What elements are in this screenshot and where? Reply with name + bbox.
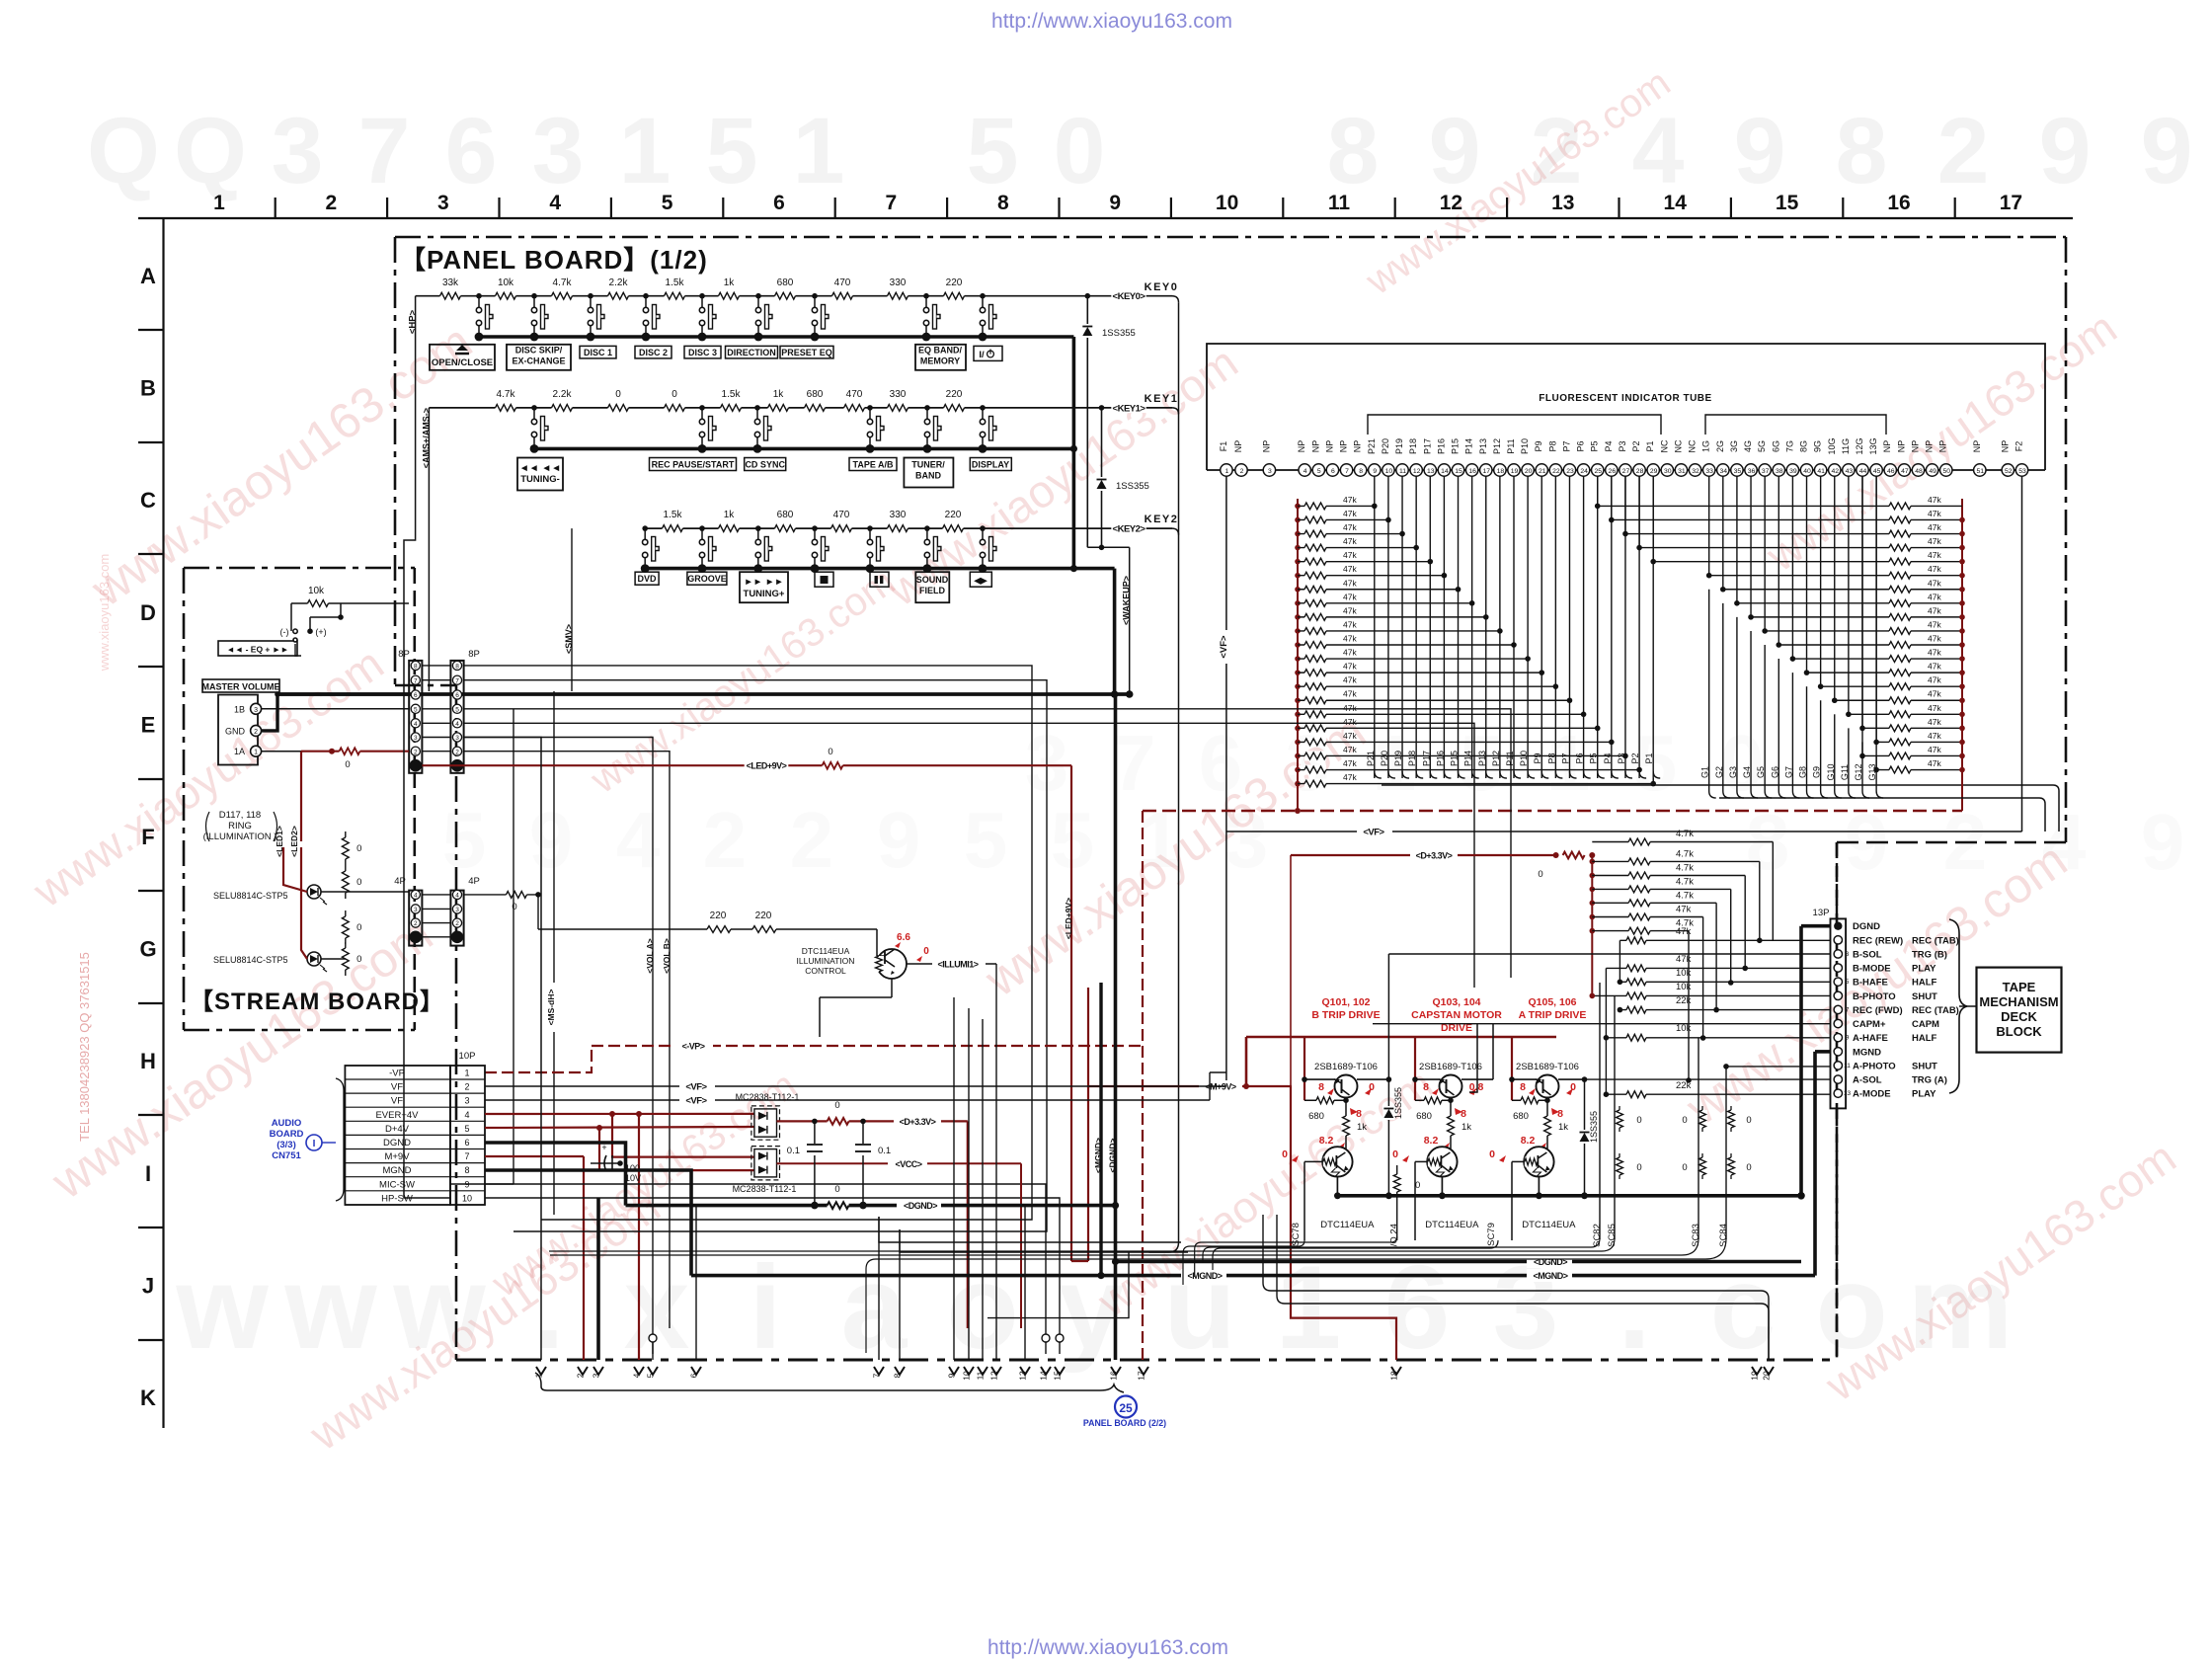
thick DGND horizontal lower: [1116, 1260, 1541, 1264]
bottom pin 9: [949, 1367, 959, 1375]
connector 8P right: [450, 661, 463, 773]
fluorescent indicator tube box: [1207, 344, 2045, 470]
svg-text:3: 3: [455, 907, 459, 913]
transistor DTC114EUA illumination control: [877, 949, 907, 979]
svg-text:TRG (A): TRG (A): [1912, 1075, 1947, 1086]
svg-text:2: 2: [455, 749, 459, 755]
svg-text:15: 15: [1455, 468, 1462, 475]
svg-text:G6: G6: [1770, 766, 1779, 778]
resistor 1k Q103: [1450, 1100, 1452, 1148]
wire emitter NPN Q106: [1538, 1177, 1540, 1196]
svg-text:0: 0: [1415, 1180, 1420, 1191]
wire P pin drop: [1611, 742, 1613, 778]
svg-text:47k: 47k: [1928, 564, 1941, 574]
svg-text:A-PHOTO: A-PHOTO: [1853, 1061, 1896, 1071]
svg-text:22k: 22k: [1676, 1080, 1692, 1091]
wire eq switch to connector: [295, 644, 301, 656]
svg-text:3: 3: [532, 99, 585, 203]
fl pin 40 8G: [1800, 464, 1812, 476]
svg-text:P16: P16: [1436, 438, 1446, 454]
svg-text:5: 5: [646, 1373, 656, 1378]
svg-text:0: 0: [1636, 1115, 1641, 1126]
svg-text:25: 25: [1119, 1401, 1133, 1415]
svg-text:NC: NC: [1688, 439, 1698, 452]
svg-text:P21: P21: [1367, 438, 1377, 454]
zero ohm resistor grid: [1619, 1106, 1620, 1132]
wire P pin drop: [1638, 770, 1640, 778]
svg-text:27: 27: [1622, 468, 1630, 475]
resistor 1.5k key row1: [721, 403, 742, 413]
fl pin 23 P7: [1563, 464, 1575, 476]
wire collector Q105: [1558, 1078, 1585, 1080]
svg-text:P3: P3: [1617, 752, 1626, 763]
svg-text:33k: 33k: [442, 277, 459, 288]
svg-text:<MS-dH>: <MS-dH>: [546, 990, 556, 1026]
svg-text:3G: 3G: [1729, 440, 1739, 452]
illumination line with 220 resistors: [538, 928, 877, 930]
svg-text:►► ►►: ►► ►►: [744, 577, 783, 588]
svg-text:47k: 47k: [1928, 675, 1941, 685]
svg-text:3: 3: [414, 735, 418, 742]
svg-text:47k: 47k: [1343, 509, 1357, 518]
resistor 680 Q101: [1304, 1099, 1346, 1101]
svg-text:G3: G3: [1728, 766, 1738, 778]
border ruler line: [138, 217, 2073, 219]
svg-text:38: 38: [1776, 468, 1783, 475]
svg-text:1SS355: 1SS355: [1116, 481, 1149, 492]
resistor 47k right bank row 10: [1881, 630, 1962, 632]
svg-text:6.6: 6.6: [897, 932, 910, 943]
key row0 label DISC 1: [580, 346, 616, 358]
resistor 4.7k ladder: [1590, 887, 1596, 893]
G bus horizontal: [1719, 797, 2039, 799]
svg-text:12: 12: [1440, 192, 1462, 214]
svg-text:FIELD: FIELD: [919, 586, 945, 595]
svg-text:37: 37: [1762, 468, 1770, 475]
resistor 1k key row1: [768, 403, 789, 413]
resistor 47k left bank row 6: [1295, 573, 1301, 579]
key switch row2: [980, 525, 986, 531]
key switch row0: [476, 293, 482, 299]
svg-text:A-SOL: A-SOL: [1853, 1075, 1882, 1086]
svg-text:220: 220: [945, 510, 962, 520]
svg-text:KEY2: KEY2: [1145, 514, 1179, 525]
svg-text:22: 22: [1552, 468, 1560, 475]
svg-text:DISC 2: DISC 2: [639, 348, 668, 357]
wire VF lines from 10P: [485, 1085, 1226, 1087]
svg-text:EVER+4V: EVER+4V: [375, 1110, 419, 1121]
diode pack MC2838-T112-1 upper: [754, 1109, 777, 1137]
master volume pot box: [218, 695, 258, 765]
svg-text:NP: NP: [1882, 440, 1892, 453]
svg-text:47k: 47k: [1343, 662, 1357, 672]
diode 1SS355 between Q101 Q103: [1387, 954, 1389, 1196]
resistor 47k left bank row 20: [1295, 767, 1301, 773]
svg-text:13: 13: [1844, 1090, 1852, 1097]
svg-text:BAND: BAND: [915, 471, 941, 481]
wire collector Q103: [1461, 1078, 1493, 1080]
svg-text:2: 2: [464, 1082, 469, 1092]
resistor 220 key row1: [944, 403, 965, 413]
resistor 47k right bank row 8: [1881, 602, 1962, 604]
svg-text:47k: 47k: [1928, 717, 1941, 727]
resistor 220 key row2: [943, 523, 964, 533]
svg-text:DTC114EUA: DTC114EUA: [1522, 1220, 1576, 1230]
resistor 47k left bank row 13: [1295, 670, 1301, 675]
svg-text:9: 9: [2141, 798, 2185, 886]
wire fl pin 9 vertical: [1374, 476, 1376, 506]
svg-text:G12: G12: [1854, 763, 1863, 780]
key row0 label EQ BAND/MEMORY: [915, 345, 966, 370]
key switch row1: [699, 405, 705, 411]
red wire M+9V stub: [485, 1155, 584, 1157]
svg-text:0: 0: [1682, 1115, 1687, 1126]
key row1 bottom bus (thick): [534, 447, 1073, 451]
svg-text:5: 5: [1317, 468, 1321, 475]
svg-text:51: 51: [1977, 468, 1985, 475]
audio board circled I: [306, 1135, 322, 1150]
13P pin 9 A-HAFE: [1834, 1033, 1842, 1041]
svg-text:P20: P20: [1380, 751, 1389, 766]
svg-text:<SMV>: <SMV>: [564, 624, 574, 654]
connector 4P right: [450, 891, 463, 946]
svg-text:11: 11: [1399, 468, 1406, 475]
svg-text:P10: P10: [1520, 438, 1530, 454]
svg-text:2SB1689-T106: 2SB1689-T106: [1516, 1062, 1579, 1072]
svg-text:I: I: [145, 1161, 151, 1186]
resistor 47k left bank row 14: [1295, 683, 1301, 689]
svg-text:29: 29: [1650, 468, 1658, 475]
wire DGND from 10P: [485, 1143, 626, 1206]
key switch row2: [924, 525, 930, 531]
key row0 bottom bus (thick): [479, 335, 1073, 339]
svg-text:0: 0: [834, 1100, 839, 1111]
svg-text:TEL 13804238923 QQ 37631515: TEL 13804238923 QQ 37631515: [77, 952, 92, 1142]
resistor 47k right bank row 19: [1881, 754, 1962, 756]
svg-text:47k: 47k: [1343, 772, 1357, 782]
svg-text:2: 2: [414, 749, 418, 755]
svg-text:47k: 47k: [1928, 758, 1941, 768]
svg-text:6: 6: [773, 192, 785, 214]
svg-text:47k: 47k: [1928, 689, 1941, 699]
red wire to lower diode pack: [612, 1114, 754, 1157]
svg-text:REC (TAB): REC (TAB): [1912, 1005, 1959, 1016]
bottom pin 20: [1764, 1367, 1774, 1375]
svg-text:32: 32: [1692, 468, 1699, 475]
wire illumination emitter: [891, 979, 893, 997]
svg-text:15: 15: [1053, 1371, 1063, 1381]
wire VF horizontal: [1226, 831, 2022, 832]
svg-text:P21: P21: [1366, 751, 1376, 766]
10P pin 6 DGND: [345, 1148, 485, 1150]
fl pin 47 NP: [1898, 464, 1910, 476]
svg-text:13: 13: [1551, 192, 1574, 214]
net tag KEY0: [1111, 290, 1145, 300]
svg-text:34: 34: [1720, 468, 1728, 475]
svg-text:10k: 10k: [1676, 968, 1692, 979]
wire P pin drop: [1443, 576, 1445, 778]
bottom pin 13: [1020, 1367, 1030, 1375]
fl pin 38 6G: [1773, 464, 1784, 476]
vertical wires from key matrix left side: [404, 296, 450, 1198]
svg-text:9: 9: [1734, 99, 1786, 203]
master volume label: [202, 679, 279, 692]
resistor 47k right bank row 20: [1881, 769, 1962, 771]
panel board dash-dot outline: [395, 236, 2066, 239]
fl pin 44 12G: [1856, 464, 1868, 476]
svg-text:2: 2: [576, 1373, 586, 1378]
key switch row0: [643, 293, 649, 299]
svg-text:47k: 47k: [1343, 522, 1357, 532]
bottom pin 14: [1041, 1367, 1051, 1375]
resistor 47k right bank row 12: [1881, 658, 1962, 660]
svg-text:6G: 6G: [1771, 440, 1780, 452]
svg-text:3: 3: [1268, 468, 1272, 475]
bottom pin 3: [593, 1367, 603, 1375]
thick wire to bottom pin16: [1114, 1262, 1118, 1361]
svg-text:BLOCK: BLOCK: [1996, 1024, 2042, 1039]
P bottom labels: [1375, 771, 1382, 778]
svg-text:33: 33: [1705, 468, 1713, 475]
svg-text:3: 3: [254, 707, 258, 714]
svg-text:0: 0: [1392, 1148, 1398, 1160]
svg-text:12G: 12G: [1855, 437, 1864, 454]
svg-text:2SB1689-T106: 2SB1689-T106: [1419, 1062, 1482, 1072]
svg-text:<DGND>: <DGND>: [904, 1201, 937, 1211]
key0 bus entry curve: [1172, 296, 1179, 303]
svg-text:4.7k: 4.7k: [1676, 890, 1694, 901]
svg-text:(-): (-): [280, 627, 289, 637]
wire fl pin 38 to right bank row 11: [1777, 476, 1779, 645]
resistor 0 right of 4P: [464, 894, 538, 896]
vertical label SC83: [1698, 1038, 1699, 1239]
svg-text:30: 30: [1664, 468, 1672, 475]
svg-text:http://www.xiaoyu163.com: http://www.xiaoyu163.com: [991, 10, 1232, 33]
svg-text:47k: 47k: [1928, 605, 1941, 615]
resistor 47k right bank row 16: [1881, 713, 1962, 715]
10P pin 4 EVER+4V: [345, 1120, 485, 1122]
svg-text:7: 7: [1112, 719, 1156, 807]
svg-text:1k: 1k: [773, 389, 785, 400]
svg-text:GROOVE: GROOVE: [687, 574, 727, 584]
resistor 47k left bank row 12: [1295, 656, 1301, 662]
resistor 2.2k key row1: [552, 403, 573, 413]
13P feed row CAPM+: [1373, 1023, 1831, 1025]
svg-text:TRG (B): TRG (B): [1912, 949, 1947, 960]
13P pin 13 A-MODE: [1834, 1089, 1842, 1097]
wire emitter Q105: [1509, 1076, 1515, 1082]
red wire D+4V: [485, 1127, 754, 1128]
key row0 label DISC 3: [684, 346, 721, 358]
resistor 0 key row1: [665, 403, 685, 413]
svg-text:7: 7: [414, 677, 418, 684]
svg-text:<MGND>: <MGND>: [1533, 1271, 1567, 1281]
key switch row1: [754, 405, 760, 411]
svg-text:8: 8: [1423, 1081, 1429, 1093]
key row2 label TUNING+: [740, 572, 788, 602]
vertical label SC84: [1725, 1067, 1727, 1239]
svg-text:NP: NP: [1896, 440, 1906, 453]
net tag VOL B vertical: [669, 928, 671, 983]
svg-text:x: x: [624, 1241, 690, 1374]
svg-text:5: 5: [706, 99, 758, 203]
wire emitter Q103: [1412, 1076, 1418, 1082]
net tag WAKEUP vertical: [1087, 546, 1129, 548]
svg-text:8: 8: [464, 1165, 469, 1175]
wire P pin drop: [1583, 714, 1585, 778]
13P pin 4 B-MODE: [1834, 964, 1842, 972]
svg-text:◄◄ ◄◄: ◄◄ ◄◄: [519, 463, 561, 474]
svg-text:F: F: [141, 825, 154, 849]
svg-text:TUNER/: TUNER/: [911, 460, 945, 470]
svg-text:<MGND>: <MGND>: [1093, 1138, 1103, 1173]
svg-text:B-PHOTO: B-PHOTO: [1853, 991, 1896, 1002]
svg-text:P6: P6: [1576, 440, 1586, 451]
key row1 label REC PAUSE/START: [650, 458, 737, 471]
resistor 47k right bank row 9: [1881, 616, 1962, 618]
fl pin 50 NP: [1940, 464, 1952, 476]
svg-text:4: 4: [414, 721, 418, 728]
svg-text:DIRECTION: DIRECTION: [727, 348, 776, 357]
svg-text:◄◄ - EQ + ►►: ◄◄ - EQ + ►►: [226, 645, 288, 655]
net tag VF on horizontal: [1357, 826, 1392, 837]
bottom pin 8: [895, 1367, 905, 1375]
svg-text:53: 53: [2018, 468, 2026, 475]
wire emitter NPN Q104: [1441, 1177, 1443, 1196]
svg-text:H: H: [140, 1049, 156, 1073]
svg-text:(ILLUMINATION ): (ILLUMINATION ): [203, 831, 277, 842]
svg-text:680: 680: [1416, 1111, 1432, 1122]
left 47k resistor bank bus (red): [1297, 499, 1299, 811]
svg-text:1: 1: [464, 1069, 469, 1078]
fl pin 15 P15: [1452, 464, 1463, 476]
svg-text:1: 1: [213, 192, 225, 214]
resistor 47k right bank row 6: [1881, 575, 1962, 577]
svg-text:47k: 47k: [1343, 536, 1357, 546]
svg-text:9: 9: [1846, 1035, 1850, 1042]
bottom pin 1: [536, 1367, 546, 1375]
connector 13P box: [1831, 918, 1847, 1108]
key switch row0: [588, 293, 593, 299]
ladder drop verticals: [1759, 861, 1761, 940]
key row0 label PRESET EQ: [780, 346, 833, 358]
svg-text:10k: 10k: [498, 277, 514, 288]
svg-text:P10: P10: [1519, 751, 1529, 766]
svg-text:I/: I/: [979, 350, 985, 360]
diode 1SS355 near Q105: [1584, 1079, 1586, 1196]
svg-text:P9: P9: [1533, 752, 1542, 763]
svg-text:4: 4: [455, 893, 459, 900]
svg-text:0: 0: [1746, 1115, 1751, 1126]
key row2 label pause: [870, 572, 889, 587]
svg-text:44: 44: [1859, 468, 1867, 475]
svg-text:11: 11: [1844, 1063, 1851, 1069]
svg-text:w: w: [283, 1241, 377, 1374]
svg-text:4: 4: [455, 721, 459, 728]
svg-text:0: 0: [1746, 1162, 1751, 1173]
svg-text:P18: P18: [1407, 751, 1417, 766]
svg-text:D+4V: D+4V: [385, 1124, 410, 1135]
svg-text:1B: 1B: [234, 704, 245, 714]
svg-text:CAPM: CAPM: [1912, 1019, 1939, 1030]
fl tube brackets: [1368, 415, 1661, 435]
svg-text:1: 1: [254, 750, 258, 756]
wires to bottom pins left: [464, 738, 541, 1361]
svg-text:1: 1: [1225, 468, 1229, 475]
svg-text:MGND: MGND: [1853, 1047, 1881, 1058]
key switch row0: [699, 293, 705, 299]
13P feed row B-PHOTO 10k: [1592, 994, 1830, 996]
key switch row0: [531, 293, 537, 299]
svg-text:47k: 47k: [1928, 592, 1941, 601]
red wire D+3.3V right section: [1291, 854, 1556, 856]
bottom pin 12: [991, 1367, 1001, 1375]
svg-text:G8: G8: [1798, 766, 1808, 778]
fl pin 13 P17: [1424, 464, 1436, 476]
svg-text:K: K: [140, 1386, 156, 1410]
resistor 470 key row1: [844, 403, 865, 413]
resistor 4.7k key row0: [552, 291, 573, 301]
svg-text:10V: 10V: [625, 1173, 641, 1183]
svg-text:0: 0: [828, 747, 832, 757]
resistor 680 Q105: [1512, 1099, 1547, 1101]
svg-text:8: 8: [1520, 1081, 1526, 1093]
svg-text:7: 7: [358, 99, 411, 203]
svg-text:P1: P1: [1644, 752, 1654, 763]
svg-text:47k: 47k: [1343, 619, 1357, 629]
wire F2 vertical: [2021, 476, 2023, 831]
svg-text:10P: 10P: [459, 1051, 476, 1062]
svg-text:I: I: [313, 1139, 316, 1149]
svg-text:SOUND: SOUND: [916, 575, 949, 585]
svg-text:10k: 10k: [1676, 982, 1692, 992]
circled 25: [1115, 1396, 1137, 1418]
svg-text:21: 21: [1539, 468, 1546, 475]
13P feed row A-MODE 22k: [1606, 1093, 1830, 1095]
wire MGND from 10P: [485, 1170, 691, 1276]
svg-text:RING: RING: [228, 821, 252, 831]
svg-text:680: 680: [1308, 1111, 1324, 1122]
svg-text:G1: G1: [1700, 766, 1710, 778]
eq seek label box: [218, 641, 297, 656]
svg-text:47k: 47k: [1343, 745, 1357, 754]
fl pin 19 P11: [1508, 464, 1520, 476]
svg-text:REC (FWD): REC (FWD): [1853, 1005, 1903, 1016]
key switch row0: [923, 293, 929, 299]
wire fl pin 45 to right bank row 20: [1875, 476, 1877, 770]
svg-text:470: 470: [833, 510, 850, 520]
svg-text:M+9V: M+9V: [384, 1151, 410, 1162]
fl pin 6 NP: [1326, 464, 1338, 476]
wire fl pin 44 to right bank row 19: [1861, 476, 1863, 755]
fl pin 21 P9: [1536, 464, 1547, 476]
svg-text:8: 8: [414, 664, 418, 671]
svg-text:DECK: DECK: [2001, 1009, 2037, 1024]
svg-text:NP: NP: [1339, 440, 1349, 453]
net tag MGND vertical: [1099, 983, 1102, 1276]
svg-text:4G: 4G: [1743, 440, 1753, 452]
svg-text:10k: 10k: [1676, 1023, 1692, 1034]
svg-text:19: 19: [1511, 468, 1519, 475]
svg-text:47k: 47k: [1343, 675, 1357, 685]
svg-text:4: 4: [632, 1373, 642, 1378]
svg-text:17: 17: [1482, 468, 1490, 475]
wires 8P interconnect: [422, 665, 450, 667]
svg-text:8.2: 8.2: [1319, 1135, 1334, 1147]
resistor 47k left bank row 8: [1295, 600, 1301, 606]
svg-text:0: 0: [356, 877, 361, 888]
key switch row2: [755, 525, 761, 531]
